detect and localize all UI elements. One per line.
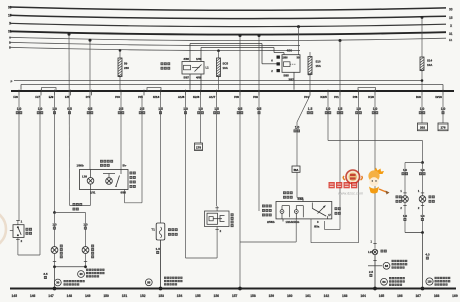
ground point note 43 <box>78 269 105 278</box>
svg-text:30: 30 <box>449 8 453 12</box>
rail pin F/6 <box>13 90 19 99</box>
svg-text:154: 154 <box>177 294 183 298</box>
watermark url <box>338 192 363 196</box>
svg-text:150: 150 <box>103 294 109 298</box>
svg-text:167: 167 <box>415 294 421 298</box>
wire label 0.5 at x=90 <box>87 107 93 114</box>
lamp left licence-plate <box>51 245 63 259</box>
svg-text:15A: 15A <box>316 64 322 68</box>
wire 4.0 brown ground <box>423 233 430 289</box>
svg-text:157: 157 <box>232 294 238 298</box>
relay pin wires down <box>190 74 201 90</box>
svg-text:4/30: 4/30 <box>287 49 293 53</box>
wire label 1.0 at x=375 <box>372 107 378 114</box>
bus line 31 <box>8 30 453 36</box>
svg-text:169: 169 <box>452 294 458 298</box>
connector bracket P/6-K18 <box>358 88 376 91</box>
lamp right licence-plate <box>82 245 94 259</box>
wire K2/5 white/yellow <box>328 95 424 164</box>
wire K2/3 to connector 178 <box>200 95 202 143</box>
lamp L20 pin2 and ground bar <box>368 255 382 289</box>
svg-text:161: 161 <box>305 294 311 298</box>
svg-text:K18: K18 <box>368 95 374 99</box>
relay pin wire down <box>293 72 295 90</box>
bus line 15 <box>8 14 453 20</box>
svg-text:50: 50 <box>382 280 386 284</box>
wire label 1.5 at x=340 <box>337 107 343 114</box>
ground symbol 110 <box>426 277 450 286</box>
wire label 1.0 grey/yellow <box>294 125 301 132</box>
relay pin to P/8 wire <box>240 219 296 242</box>
connector 56A <box>292 166 300 172</box>
fuse SC5 10A <box>217 49 229 89</box>
svg-text:30: 30 <box>56 281 60 285</box>
rail pin A1/7 <box>209 90 217 99</box>
wire A1/8 brown loop <box>186 95 222 258</box>
svg-text:5/87: 5/87 <box>184 75 190 79</box>
rail pin A1/8 <box>178 90 186 99</box>
svg-text:1/31: 1/31 <box>90 190 96 194</box>
wire label 1.0 at x=443 <box>441 107 446 114</box>
svg-text:P/8: P/8 <box>234 95 239 99</box>
svg-text:202: 202 <box>420 126 425 130</box>
wire P/3 to pin 5/+ <box>120 95 122 169</box>
wire P/1 white/yellow to pin 3 <box>325 39 342 230</box>
wire switch pin 2 loop <box>16 95 40 255</box>
relay pin wire 3/86 up <box>190 44 277 64</box>
wire label 1.5 at x=160.5 <box>158 107 163 114</box>
svg-text:E1: E1 <box>449 38 453 42</box>
svg-text:1.0: 1.0 <box>420 168 425 172</box>
relay connector pads <box>271 56 280 74</box>
svg-text:T1: T1 <box>151 228 155 232</box>
svg-text:1.0: 1.0 <box>403 168 408 172</box>
svg-text:162: 162 <box>324 294 330 298</box>
svg-text:159: 159 <box>269 294 275 298</box>
relay 4/30 <box>282 49 300 82</box>
svg-text:153: 153 <box>158 294 164 298</box>
svg-text:P: P <box>11 80 13 84</box>
rail pin K/13 <box>153 90 161 99</box>
bus line 30 <box>8 5 453 11</box>
wire label 1.0 at x=422 <box>419 107 425 114</box>
svg-text:1.0: 1.0 <box>52 222 57 226</box>
lamp ground join <box>53 253 87 268</box>
svg-text:5/85: 5/85 <box>284 74 290 78</box>
svg-text:149: 149 <box>85 294 91 298</box>
svg-text:P/3: P/3 <box>115 95 120 99</box>
svg-text:K2/5: K2/5 <box>320 95 327 99</box>
wire P/5 green outer loop <box>125 95 143 202</box>
feed line lower <box>21 85 443 91</box>
wire label 0.5 at x=240 <box>237 107 243 114</box>
wire label 0.5 at x=69.5 <box>67 107 72 114</box>
indicator lamp 2 <box>103 174 115 185</box>
bus line X <box>9 22 453 28</box>
bus line B <box>9 41 300 46</box>
svg-text:5/+: 5/+ <box>123 163 127 167</box>
svg-text:152: 152 <box>140 294 146 298</box>
svg-text:158: 158 <box>250 294 256 298</box>
wire label 0.5 at x=259 <box>257 107 262 114</box>
connector 202 <box>418 123 428 131</box>
rail pin F/5 <box>65 90 71 99</box>
feed line P (upper) <box>11 80 423 84</box>
svg-text:www.dzsc.com: www.dzsc.com <box>338 192 363 196</box>
svg-text:15: 15 <box>449 16 453 20</box>
svg-text:266: 266 <box>124 66 129 70</box>
bus line A <box>9 36 453 42</box>
relay pin 2/58 stub <box>282 219 284 222</box>
heated rear window switch/indicator E230 <box>73 160 136 211</box>
lamp ground join <box>405 231 424 234</box>
svg-text:6/86: 6/86 <box>121 190 127 194</box>
lamp L20 <box>368 249 387 254</box>
connector rail <box>11 90 454 92</box>
svg-text:L1: L1 <box>206 66 210 70</box>
svg-text:S14: S14 <box>427 58 433 62</box>
bus line C <box>9 46 300 51</box>
ground symbol 30 <box>54 279 84 286</box>
svg-text:S10: S10 <box>316 59 322 63</box>
fuse S10 15A <box>308 52 322 90</box>
svg-text:55: 55 <box>147 280 151 284</box>
rail pin P/6 <box>353 90 359 99</box>
svg-text:1.5: 1.5 <box>308 107 313 111</box>
svg-text:A: A <box>9 36 11 40</box>
svg-text:166: 166 <box>397 294 403 298</box>
svg-text:155: 155 <box>195 294 201 298</box>
svg-text:2.5: 2.5 <box>369 270 374 274</box>
lamp branch <box>405 163 423 196</box>
wire P/4 grey/yellow diagonal <box>297 95 310 166</box>
svg-text:P/1: P/1 <box>334 95 339 99</box>
svg-text:P/9: P/9 <box>253 95 258 99</box>
svg-text:1.0: 1.0 <box>83 222 88 226</box>
wire label 1.0 at x=54.5 <box>52 107 57 114</box>
wire P/7 to pin 1/86b <box>89 39 92 170</box>
svg-text:145: 145 <box>12 294 18 298</box>
label 1.0 black right lamp <box>83 222 88 229</box>
svg-text:3.5: 3.5 <box>43 272 48 276</box>
switch arm in E230 <box>115 170 121 188</box>
branch labels <box>402 168 426 175</box>
svg-text:31: 31 <box>8 30 12 34</box>
svg-text:5/83.: 5/83. <box>298 197 304 201</box>
wire A1/7 to lock motor <box>215 95 218 211</box>
wire F/6 to switch S <box>16 95 22 224</box>
wire label 1.0 at x=19 <box>16 107 22 114</box>
lamp pins 2 <box>400 202 425 232</box>
rail pin P/8 <box>234 90 240 99</box>
svg-text:K2/3: K2/3 <box>193 95 200 99</box>
wire label 1.0 at x=200.5 <box>197 107 204 114</box>
svg-text:E: E <box>9 46 11 50</box>
svg-text:1.0: 1.0 <box>420 214 425 218</box>
svg-text:F/7: F/7 <box>35 95 40 99</box>
ground rail <box>10 288 456 290</box>
fuse 59/266 <box>118 49 129 90</box>
svg-text:10A: 10A <box>223 66 229 70</box>
ground rail dots <box>53 287 425 291</box>
svg-text:D/9: D/9 <box>416 95 421 99</box>
svg-text:0.5: 0.5 <box>67 107 72 111</box>
svg-text:2/86: 2/86 <box>283 56 289 60</box>
svg-text:L20: L20 <box>368 250 373 254</box>
watermark mascot <box>368 168 389 195</box>
rail pin E/9 <box>49 90 55 99</box>
svg-text:A1/7: A1/7 <box>209 95 216 99</box>
watermark edge arc <box>0 210 6 248</box>
svg-text:59: 59 <box>124 61 128 65</box>
rail pin F/7 <box>35 90 41 99</box>
relay pin wire 1/86 up <box>201 48 284 62</box>
fuse S14 10A <box>420 16 433 90</box>
ground symbol 55 <box>145 277 182 286</box>
svg-text:163: 163 <box>342 294 348 298</box>
svg-text:147: 147 <box>48 294 54 298</box>
svg-text:176: 176 <box>440 126 445 130</box>
wire P/8 from bus 31 to ground <box>239 34 242 288</box>
switch S (boot contact switch) <box>10 225 32 238</box>
wire E/9 lamp feed <box>53 95 85 246</box>
svg-text:4.0: 4.0 <box>425 252 430 256</box>
svg-text:148: 148 <box>67 294 73 298</box>
connector bracket P/5-K/13 <box>147 88 161 91</box>
ground symbol 50 <box>381 277 405 286</box>
indicator lamp L39 <box>87 170 94 190</box>
watermark red text <box>329 182 358 188</box>
svg-text:10A: 10A <box>427 63 433 67</box>
connector 176 <box>438 123 448 131</box>
svg-text:83: 83 <box>385 264 389 268</box>
svg-text:146: 146 <box>30 294 36 298</box>
rail pin K2/5 <box>320 90 328 99</box>
rail pin P/7 <box>86 90 92 99</box>
svg-text:1/86b: 1/86b <box>77 163 84 167</box>
wire label 2.5 at x=142 <box>139 107 145 114</box>
wire label 2.5 at x=121 <box>118 107 124 114</box>
svg-text:156: 156 <box>214 294 220 298</box>
rail pin P/9 <box>253 90 259 99</box>
rail pin P/3 <box>115 90 121 99</box>
wire label 1.0 at x=40 <box>37 107 43 114</box>
svg-text:1.0: 1.0 <box>403 214 408 218</box>
wire D/10 red <box>442 95 444 123</box>
svg-text:151: 151 <box>122 294 128 298</box>
wire label 1.5 at x=310 <box>307 107 313 114</box>
svg-text:A1/8: A1/8 <box>178 95 185 99</box>
wire label 1.5 at x=216.5 <box>213 107 220 114</box>
wire P/6 grey/white loop <box>311 95 359 242</box>
rail pin K18 <box>368 90 375 99</box>
svg-text:D/10: D/10 <box>435 95 442 99</box>
wire to relay pin 5/83 <box>297 172 303 201</box>
wire K/13 to T1 <box>160 95 162 223</box>
svg-text:56A: 56A <box>294 168 299 172</box>
svg-text:43: 43 <box>79 272 83 276</box>
svg-text:F/6: F/6 <box>13 95 18 99</box>
ultrasonic alarm sender T1 <box>151 223 177 240</box>
wire label 1.0 at x=328 <box>325 107 331 114</box>
svg-text:168: 168 <box>434 294 440 298</box>
wire X to relay 30 pin <box>297 25 300 55</box>
svg-text:1/86: 1/86 <box>196 57 202 61</box>
svg-text:164: 164 <box>360 294 366 298</box>
wire 3.5 brown to ground <box>43 267 54 289</box>
svg-text:1.5: 1.5 <box>156 247 161 251</box>
wire label 1.0 at x=185.5 <box>183 107 188 114</box>
svg-text:15: 15 <box>8 14 12 18</box>
wire 2.5 brown label <box>369 270 374 277</box>
label 1.0 black left lamp <box>52 222 57 229</box>
svg-text:160: 160 <box>287 294 293 298</box>
wire P/9 from bus 31 to relay <box>258 34 261 211</box>
wire D/9 red/white <box>421 95 423 123</box>
svg-text:110: 110 <box>427 281 432 284</box>
wire F/5 brown outer loop <box>68 33 91 206</box>
muffler relay J / box <box>161 57 210 79</box>
svg-text:31: 31 <box>449 32 453 36</box>
svg-text:P/6: P/6 <box>353 95 358 99</box>
rail pin D/9 <box>416 90 422 99</box>
connector bracket F/7-E/9 <box>42 88 57 91</box>
rail pin P/1 <box>334 90 340 99</box>
svg-text:B: B <box>9 41 11 45</box>
wire K18 grey/blue <box>374 95 376 248</box>
rail pin D/10 <box>435 90 443 99</box>
boot lid relay J <box>262 191 341 228</box>
svg-text:30: 30 <box>8 5 12 9</box>
svg-text:E/9: E/9 <box>49 95 54 99</box>
central locking motor V53 <box>205 211 234 227</box>
rail pin P/4 <box>304 90 310 99</box>
current track numbers 145-169 <box>12 294 458 298</box>
svg-text:3/86: 3/86 <box>184 57 190 61</box>
svg-text:2/58/b: 2/58/b <box>267 220 275 224</box>
svg-text:165: 165 <box>379 294 385 298</box>
svg-text:3/87: 3/87 <box>289 77 295 81</box>
boot lamp left W3 <box>396 189 409 203</box>
watermark seal logo <box>343 170 362 184</box>
rail pin P/5 <box>138 90 144 99</box>
wire 1.5 white to ground <box>156 240 161 289</box>
rail pin K2/3 <box>193 90 201 99</box>
connector 178 <box>195 143 203 151</box>
svg-text:1/2b/k/RSb: 1/2b/k/RSb <box>286 220 300 224</box>
svg-text:L39: L39 <box>82 175 87 179</box>
svg-text:178: 178 <box>196 145 201 149</box>
svg-text:SC5: SC5 <box>223 61 229 65</box>
wire label 1.0 at x=358.5 <box>355 107 362 114</box>
boot lamp right W6 <box>418 189 435 203</box>
ground symbol 83 <box>383 260 407 269</box>
svg-text:/83a: /83a <box>314 225 320 229</box>
svg-text:K/13: K/13 <box>153 95 160 99</box>
lamp L20 pin1 <box>371 240 377 244</box>
svg-text:P/5: P/5 <box>138 95 143 99</box>
